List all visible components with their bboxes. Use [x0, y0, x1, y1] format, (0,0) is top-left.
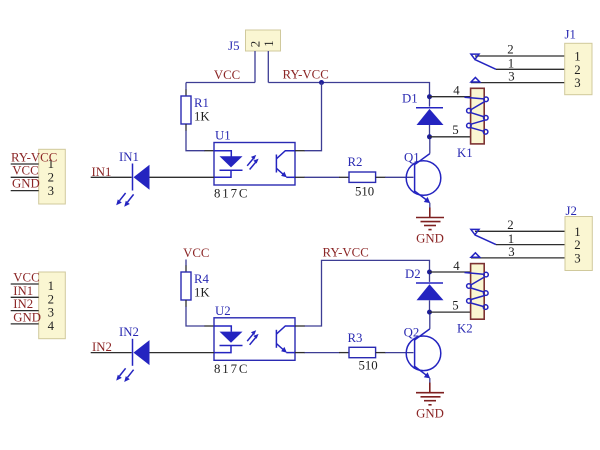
pin wire VCC (P1.2): [11, 176, 39, 178]
relay K1 contact: wire pin2: [475, 55, 565, 57]
svg-text:3: 3: [508, 70, 514, 84]
svg-text:RY-VCC: RY-VCC: [283, 68, 329, 82]
pin wire GND (P2.4): [11, 323, 39, 325]
relay K2 contact: wire pin2: [475, 230, 565, 232]
LED IN1 arrow b: [128, 194, 134, 202]
Q2 emitter lead: [414, 366, 427, 376]
relay K2 coil: [457, 264, 488, 336]
D1 cathode bar: [416, 107, 443, 109]
junction node D2 cathode: [427, 270, 432, 275]
wire R1 to U1 anode: [185, 124, 187, 131]
svg-text:2: 2: [574, 63, 580, 77]
optocoupler U1: [214, 129, 295, 201]
U2 LED anode path: [214, 326, 231, 332]
wire LED IN1 to U1: [150, 176, 215, 178]
relay K1 armature: [475, 60, 496, 70]
junction node D2 anode: [427, 310, 432, 315]
pin wire VCC (P2.1): [11, 283, 39, 285]
resistor R4: [181, 272, 210, 300]
connector P2 (4-pin header): [39, 272, 66, 339]
svg-text:1K: 1K: [194, 110, 210, 124]
U2 LED cathode path: [214, 346, 231, 353]
U2 light arrow b: [250, 337, 256, 344]
D2 triangle: [417, 284, 444, 300]
U2 phototransistor emitter: [276, 344, 284, 351]
svg-text:5: 5: [452, 123, 458, 137]
LED IN2 arrow a: [120, 368, 126, 376]
wire U2 collector to RY-VCC to D2: [295, 325, 305, 327]
relay K1 NO contact mark: [471, 78, 480, 83]
connector J5: [228, 30, 280, 53]
svg-text:1: 1: [574, 225, 580, 239]
wire VCC stub to R4: [185, 260, 187, 267]
U1 LED cathode bar: [220, 169, 243, 171]
junction node RY-VCC / U1 collector: [319, 80, 324, 85]
svg-text:1K: 1K: [194, 286, 210, 300]
wire Q1 emitter to ground: [429, 203, 431, 208]
relay K2 contact: wire pin3: [471, 257, 565, 259]
connector P1 (3-pin header): [39, 149, 66, 204]
svg-text:K1: K1: [457, 146, 473, 160]
svg-text:RY-VCC: RY-VCC: [323, 246, 369, 260]
svg-text:Q1: Q1: [404, 151, 420, 165]
svg-text:D1: D1: [402, 92, 418, 106]
svg-text:U1: U1: [215, 129, 231, 143]
U1 phototransistor collector: [276, 151, 295, 159]
U2 light arrow a: [247, 334, 253, 341]
wire R2 to Q1 base: [376, 176, 386, 178]
wire Q2 collector to D2 anode node: [429, 312, 431, 329]
relay K1 contact: wire pin1: [496, 68, 565, 70]
U1 LED anode path: [214, 151, 231, 157]
U1 LED cathode path: [214, 170, 231, 177]
wire U2 emitter to R3: [295, 352, 305, 354]
LED IN1: [116, 150, 149, 207]
svg-text:2: 2: [48, 292, 54, 306]
wire LED IN2 to U2: [150, 352, 215, 354]
svg-text:2: 2: [507, 43, 513, 57]
svg-text:IN2: IN2: [13, 297, 33, 311]
svg-text:3: 3: [48, 184, 54, 198]
svg-text:3: 3: [574, 76, 580, 90]
wire R1 top stub: [185, 83, 187, 91]
wire relay K2 pin5: [430, 311, 471, 313]
svg-text:RY-VCC: RY-VCC: [11, 150, 57, 164]
relay K1 NC contact mark: [471, 54, 479, 59]
svg-text:510: 510: [355, 185, 374, 199]
relay K2 armature: [475, 235, 496, 245]
pin wire IN1 (P2.2): [11, 296, 39, 298]
U2 phototransistor bar: [275, 330, 277, 348]
wire J5 pin2 to VCC rail: [254, 51, 256, 83]
diode D2: [405, 267, 444, 312]
U2 phototransistor collector: [276, 326, 295, 334]
svg-text:VCC: VCC: [12, 163, 38, 177]
diode D1: [402, 92, 444, 137]
svg-text:4: 4: [453, 84, 460, 98]
wire R4 to U2 anode: [185, 300, 187, 307]
U1 light arrow b: [250, 162, 256, 169]
wire R3 to Q2 base: [376, 352, 386, 354]
wire U1 collector to RY-VCC junction: [295, 150, 305, 152]
transistor Q2: [404, 326, 441, 379]
svg-text:1: 1: [262, 40, 276, 46]
svg-text:R3: R3: [348, 331, 363, 345]
svg-text:R1: R1: [194, 96, 209, 110]
svg-text:4: 4: [48, 319, 55, 333]
wire Q2 emitter to ground: [429, 378, 431, 383]
svg-text:J2: J2: [566, 204, 577, 218]
wire relay K1 pin4: [430, 96, 471, 98]
svg-text:2: 2: [248, 41, 262, 47]
svg-text:IN1: IN1: [13, 284, 33, 298]
U1 phototransistor emitter: [276, 168, 284, 175]
D1 triangle: [417, 109, 444, 125]
LED IN1 arrow a: [120, 193, 126, 201]
svg-text:J1: J1: [565, 28, 576, 42]
D2 cathode bar: [416, 282, 443, 284]
U1 phototransistor bar: [275, 155, 277, 173]
svg-text:1: 1: [574, 50, 580, 64]
connector J2: [565, 204, 592, 271]
relay K2 contact: wire pin1: [496, 244, 565, 246]
ground symbol (Q2): [416, 383, 444, 405]
LED IN2 arrow b: [128, 370, 134, 378]
U2 LED cathode bar: [220, 345, 243, 347]
ground symbol (Q1): [416, 208, 444, 230]
svg-text:IN2: IN2: [119, 325, 139, 339]
U2 LED triangle: [220, 332, 243, 343]
wire VCC rail: [186, 82, 255, 84]
svg-text:J5: J5: [228, 39, 239, 53]
svg-text:IN1: IN1: [119, 150, 139, 164]
wire U1 emitter to R2: [295, 176, 305, 178]
wire RY-VCC rail: [268, 83, 429, 97]
Q2 collector lead: [414, 329, 429, 340]
resistor R3: [348, 331, 378, 373]
resistor R1: [181, 96, 210, 124]
transistor Q1: [404, 151, 441, 204]
svg-text:R2: R2: [348, 155, 363, 169]
svg-text:K2: K2: [457, 321, 473, 335]
relay K1 contact: wire pin3: [471, 82, 565, 84]
wire relay K1 pin5: [430, 136, 471, 138]
svg-text:5: 5: [452, 298, 458, 312]
svg-text:VCC: VCC: [183, 246, 209, 260]
svg-text:IN2: IN2: [92, 340, 112, 354]
relay K2 NO contact mark: [471, 253, 480, 257]
svg-text:3: 3: [574, 251, 580, 265]
pin wire GND (P1.3): [11, 190, 39, 192]
Q1 base bar: [414, 163, 416, 194]
wire Q1 collector to D1 anode node: [429, 137, 431, 154]
wire J5 pin1 to RY-VCC rail: [267, 51, 269, 83]
svg-text:VCC: VCC: [13, 271, 39, 285]
svg-text:VCC: VCC: [214, 68, 240, 82]
Q1 emitter lead: [414, 191, 427, 201]
wire relay K2 pin4: [430, 271, 471, 273]
svg-text:U2: U2: [215, 304, 231, 318]
svg-text:3: 3: [48, 306, 54, 320]
svg-text:GND: GND: [12, 177, 40, 191]
relay K2 NC contact mark: [471, 229, 479, 234]
svg-text:Q2: Q2: [404, 326, 420, 340]
svg-text:1: 1: [508, 232, 514, 246]
svg-text:2: 2: [574, 238, 580, 252]
resistor R2: [348, 155, 376, 199]
wire IN1 to LED: [91, 176, 132, 178]
pin wire RY-VCC (P1.1): [11, 163, 39, 165]
wire IN2 to LED: [91, 352, 132, 354]
Q2 base bar: [414, 338, 416, 369]
svg-text:2: 2: [507, 218, 513, 232]
svg-text:GND: GND: [13, 311, 41, 325]
svg-text:GND: GND: [416, 232, 444, 246]
LED IN2: [116, 325, 149, 382]
U1 LED triangle: [220, 156, 243, 167]
svg-text:2: 2: [48, 171, 54, 185]
svg-text:1: 1: [508, 57, 514, 71]
connector J1: [565, 28, 593, 95]
pin wire IN2 (P2.3): [11, 310, 39, 312]
svg-text:R4: R4: [194, 272, 210, 286]
svg-text:817C: 817C: [214, 187, 249, 201]
U1 light arrow a: [247, 158, 253, 165]
junction node D1 anode: [427, 134, 432, 139]
optocoupler U2: [214, 304, 295, 376]
svg-text:510: 510: [359, 359, 378, 373]
svg-text:3: 3: [508, 245, 514, 259]
svg-text:1: 1: [48, 279, 54, 293]
svg-text:817C: 817C: [214, 362, 249, 376]
svg-text:4: 4: [453, 259, 460, 273]
svg-text:D2: D2: [405, 267, 421, 281]
junction node D1 cathode: [427, 94, 432, 99]
svg-text:GND: GND: [416, 407, 444, 421]
relay K1 coil: [457, 88, 488, 160]
Q1 collector lead: [414, 154, 429, 165]
